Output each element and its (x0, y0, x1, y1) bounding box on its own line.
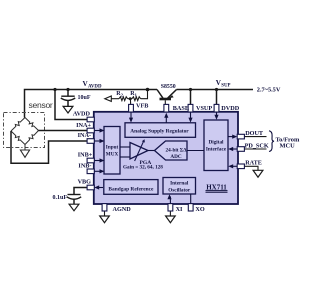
ground under bridge (24, 145, 26, 151)
pin PD_SCK (237, 147, 244, 152)
pin DOUT (237, 134, 244, 139)
pin INA- (87, 139, 94, 144)
svg-text:Input: Input (106, 145, 119, 151)
svg-text:Interface: Interface (206, 146, 227, 152)
wire R1 to rail (141, 90, 148, 99)
op-chip U1 HX711 body (94, 112, 238, 204)
ground under C1 (63, 106, 73, 113)
wire Bandgap to VBG (97, 187, 104, 189)
svg-text:INB-: INB- (78, 162, 91, 169)
wire RATE to Digital Interface (231, 165, 238, 167)
svg-text:2.7~5.5V: 2.7~5.5V (257, 86, 281, 93)
ground under C2 (69, 204, 79, 211)
wire DVDD to Digital Interface (216, 113, 218, 118)
wire INA+ to MUX (94, 130, 102, 132)
svg-text:S8550: S8550 (161, 84, 176, 90)
wire oscillator to XO (190, 194, 192, 204)
wire PD_SCK (244, 148, 267, 150)
sensor box (dash-dot) (4, 113, 45, 148)
resistor R1 (132, 97, 141, 101)
pin XI (168, 204, 173, 211)
block Input MUX (104, 127, 120, 175)
pin INB+ (87, 158, 94, 163)
bridge resistor bottom-left arm (11, 131, 25, 145)
wire MUX to PGA (-) (120, 156, 130, 158)
block Internal Oscillator (163, 178, 196, 195)
svg-text:BASE: BASE (173, 105, 189, 112)
pin VFB (129, 104, 134, 112)
svg-text:INA-: INA- (78, 132, 91, 139)
svg-text:INA+: INA+ (76, 122, 91, 129)
svg-text:MUX: MUX (106, 151, 119, 157)
svg-text:RATE: RATE (245, 160, 262, 167)
wire VSUP drop (190, 90, 192, 106)
wire VSUP to regulator (190, 113, 192, 121)
wire R2-R1 junction (128, 98, 132, 100)
svg-text:2: 2 (121, 92, 123, 97)
wire AVDD branch (55, 90, 88, 120)
svg-text:DOUT: DOUT (245, 130, 264, 137)
bridge resistor bottom-right arm (25, 131, 39, 145)
block Digital Interface (204, 120, 228, 171)
svg-text:PD_SCK: PD_SCK (245, 143, 269, 150)
svg-text:SUP: SUP (221, 83, 230, 88)
svg-text:XI: XI (176, 206, 183, 213)
svg-text:VBG: VBG (78, 179, 92, 186)
svg-text:INB+: INB+ (78, 151, 93, 158)
wire Digital Interface to DOUT (228, 136, 234, 138)
svg-text:Digital: Digital (209, 140, 225, 146)
wire XI to oscillator (169, 197, 171, 204)
pin XO (188, 204, 193, 211)
block Bandgap Reference (104, 180, 158, 195)
transistor Q1 S8550 (157, 90, 163, 99)
capacitor C1 10uF (67, 90, 69, 97)
wire PGA to ADC (148, 150, 155, 152)
wire INA- to MUX (94, 140, 102, 142)
svg-text:Bandgap Reference: Bandgap Reference (108, 186, 154, 192)
pin RATE (237, 164, 244, 169)
wire MUX to PGA (+) (120, 146, 130, 148)
bridge resistor top-left arm (11, 118, 25, 132)
svg-text:sensor: sensor (29, 100, 53, 110)
pin INB- (87, 169, 94, 174)
pin VBG (87, 185, 94, 190)
pin DVDD (214, 104, 219, 112)
wire INB- to MUX (94, 170, 102, 172)
svg-text:AVDD: AVDD (88, 84, 102, 89)
svg-text:0.1uF: 0.1uF (53, 195, 68, 201)
svg-text:Analog Supply Regulator: Analog Supply Regulator (130, 129, 189, 135)
op-amp PGA (130, 143, 148, 160)
svg-text:10uF: 10uF (78, 95, 91, 101)
ground under RATE (253, 170, 263, 177)
pin AVDD (87, 117, 94, 122)
wire regulator to BASE (165, 115, 167, 123)
wire INA+ (39, 130, 89, 132)
svg-text:VFB: VFB (136, 102, 148, 109)
wire ADC to Digital Interface (187, 150, 204, 152)
svg-text:VSUP: VSUP (196, 105, 212, 112)
wire VFB to regulator (130, 113, 132, 121)
svg-text:24-bit ΣΔ: 24-bit ΣΔ (166, 148, 188, 154)
svg-text:MCU: MCU (280, 142, 296, 149)
svg-text:1: 1 (135, 92, 137, 97)
bridge resistor top-right arm (25, 118, 39, 131)
wire VFB drop (129, 99, 131, 106)
ground XI (169, 211, 171, 216)
svg-text:Oscillator: Oscillator (168, 188, 191, 194)
svg-text:AVDD: AVDD (73, 111, 91, 118)
pin BASE (164, 104, 169, 112)
wire INA- (11, 131, 88, 163)
brace to MCU (269, 131, 274, 152)
wire PD_SCK to Digital Interface (231, 148, 238, 150)
capacitor C2 0.1uF (68, 194, 81, 196)
arrow to AGND (open left arrowhead) (105, 96, 112, 101)
wire DOUT (244, 136, 267, 138)
svg-text:ADC: ADC (170, 154, 181, 160)
pin INA+ (87, 128, 94, 133)
ground AGND (104, 211, 106, 216)
pin AGND (102, 204, 107, 211)
net VAVDD rail (25, 90, 158, 118)
svg-text:Internal: Internal (170, 181, 189, 187)
wire RATE (244, 166, 258, 170)
pin VSUP (188, 104, 193, 112)
block Analog Supply Regulator (125, 123, 196, 138)
wire DVDD drop (216, 90, 218, 106)
wire INB+ to MUX (94, 160, 102, 162)
svg-text:Gain = 32, 64, 128: Gain = 32, 64, 128 (123, 164, 163, 170)
resistor R2 (119, 97, 128, 101)
svg-text:DVDD: DVDD (221, 105, 239, 112)
net VSUP rail (177, 89, 254, 91)
block ADC 24-bit (155, 141, 188, 160)
svg-text:XO: XO (195, 206, 204, 213)
wire VBG (74, 188, 88, 195)
svg-text:AGND: AGND (113, 206, 132, 213)
